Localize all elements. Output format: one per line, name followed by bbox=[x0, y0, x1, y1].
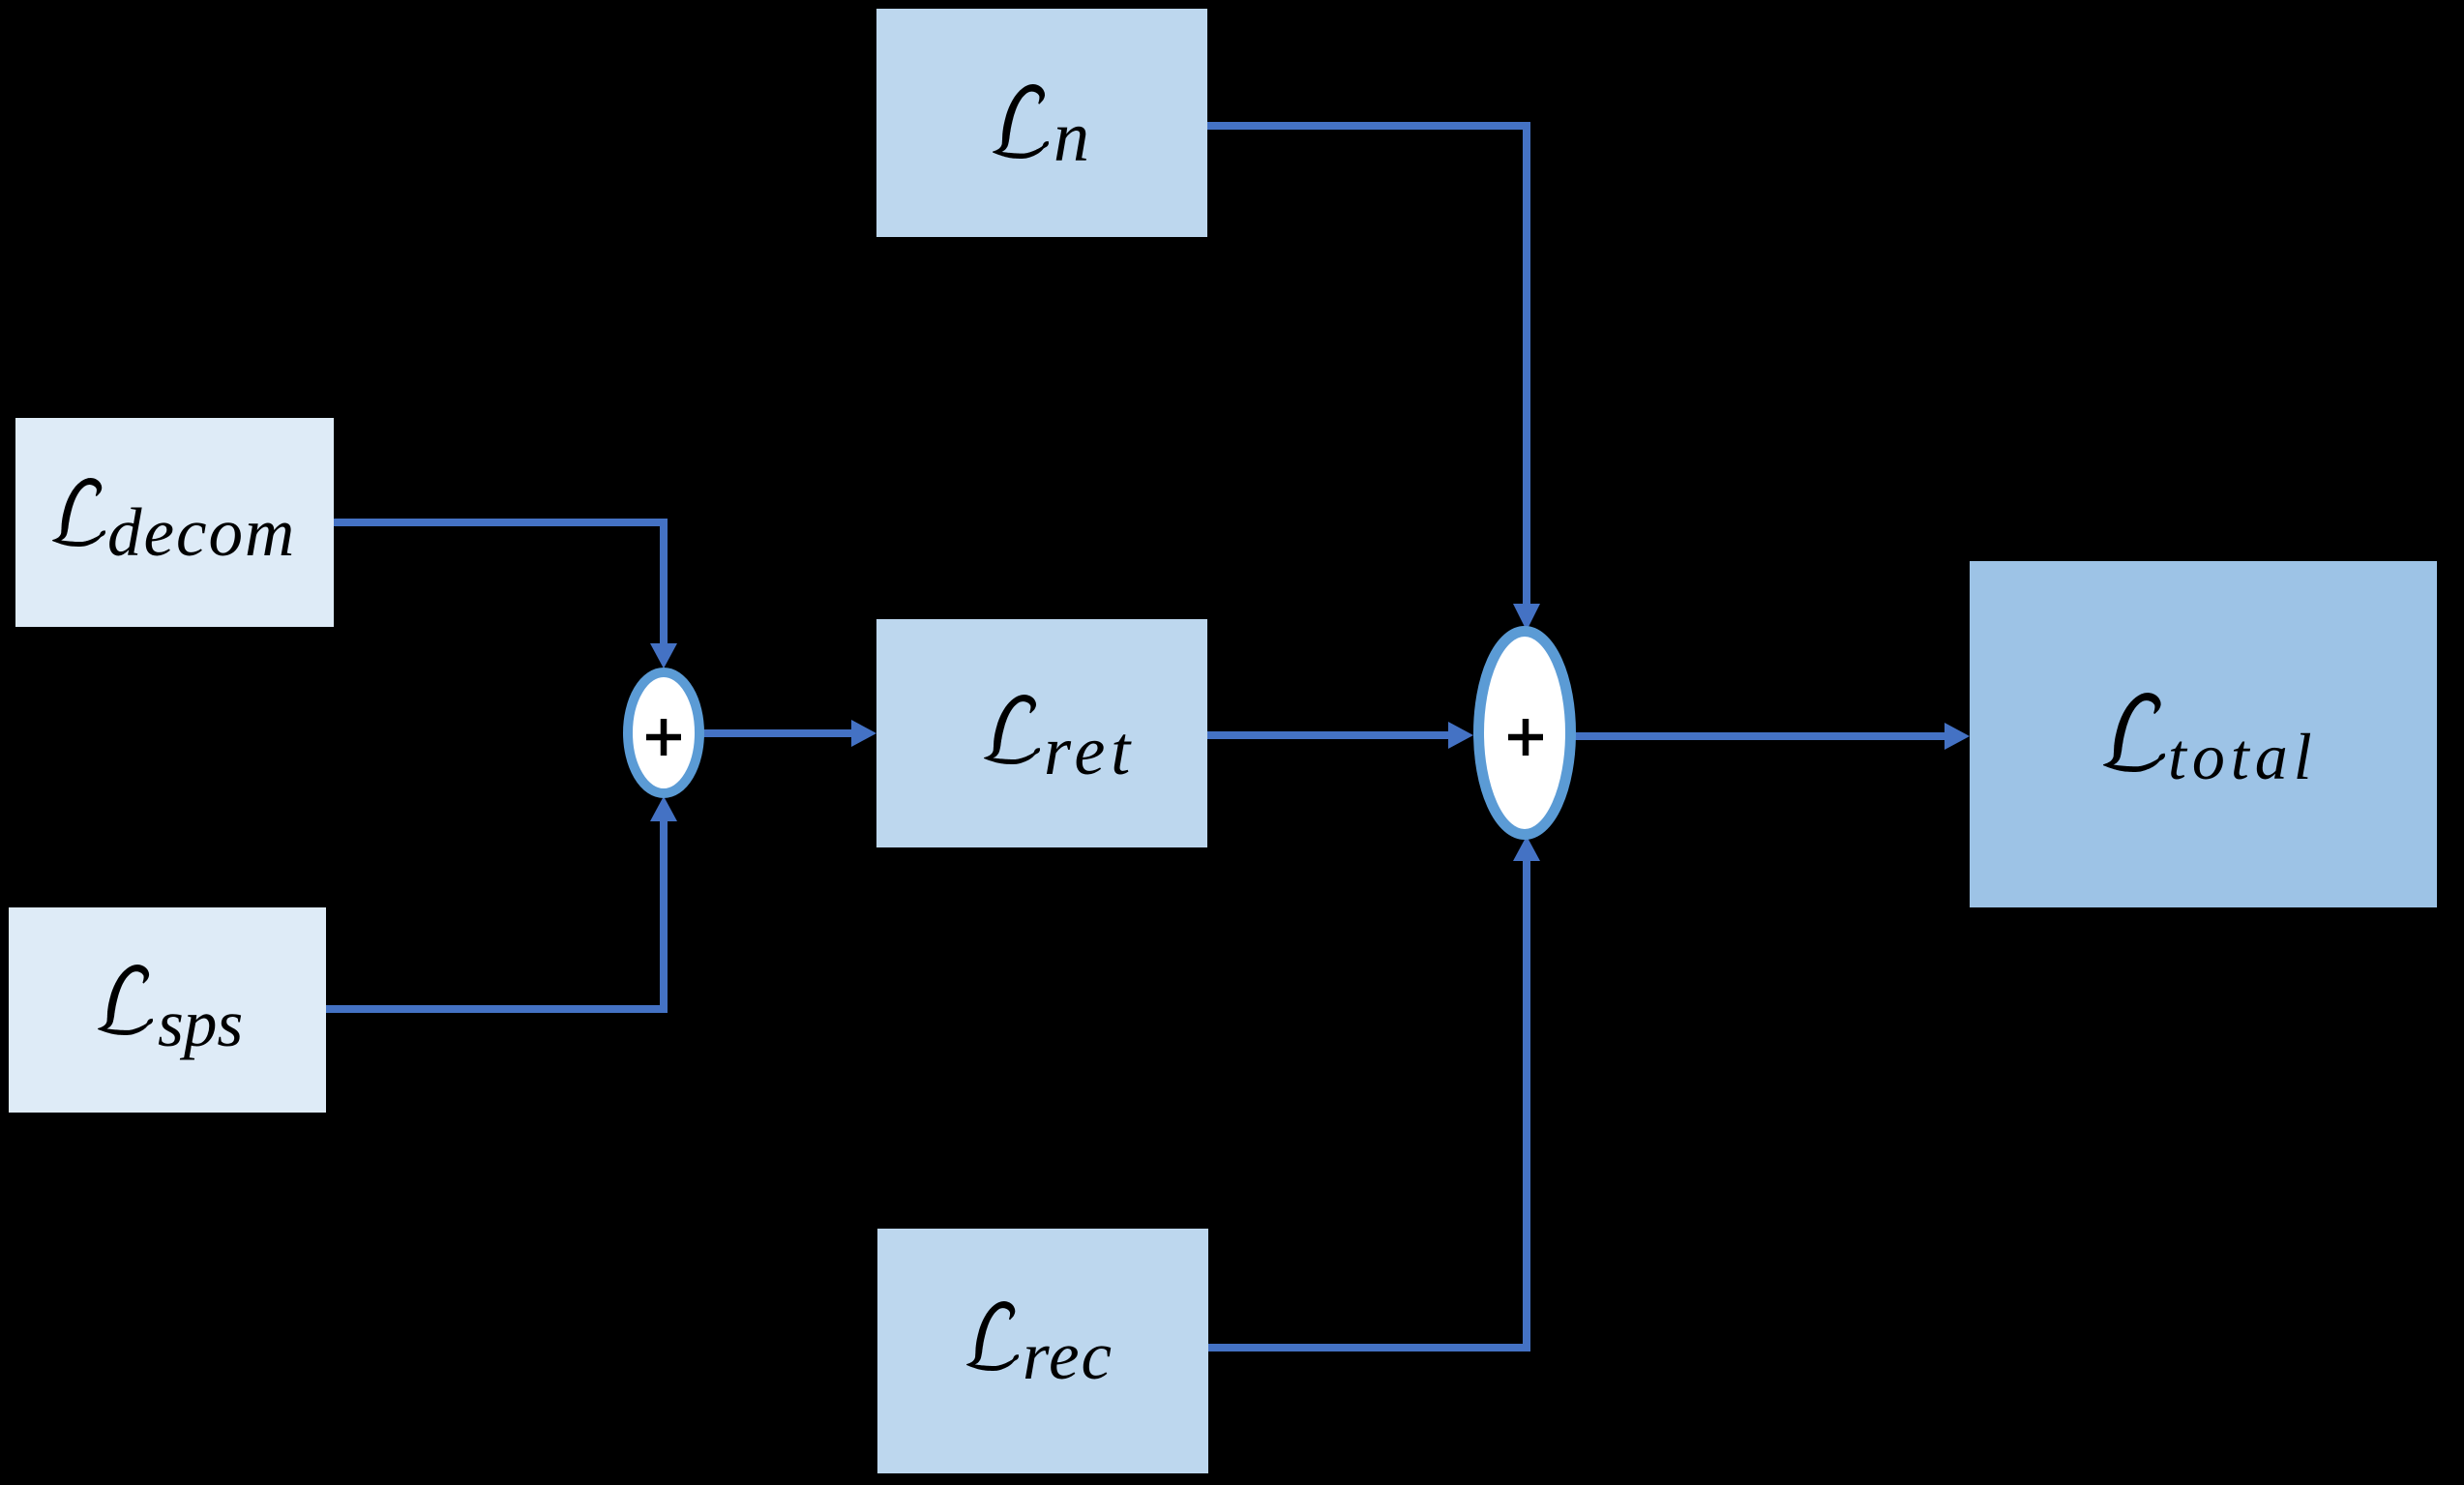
box Ln bbox=[876, 9, 1207, 237]
wire adder1 to Lret bbox=[703, 729, 851, 737]
wire adder2 to Ltotal bbox=[1575, 732, 1944, 740]
label Ltotal bbox=[2103, 693, 2165, 772]
svg-text:n: n bbox=[1054, 98, 1089, 177]
wire Lret to adder2 bbox=[1207, 731, 1448, 739]
label Ldecom bbox=[52, 478, 105, 547]
adder1 ellipse bbox=[628, 672, 699, 793]
svg-text:sps: sps bbox=[158, 987, 243, 1060]
wire Ldecom to adder1 bbox=[334, 522, 664, 643]
wire Ln to adder2 bbox=[1207, 126, 1527, 604]
adder2 plus bbox=[1508, 719, 1543, 756]
adder1 plus bbox=[646, 719, 681, 756]
box Lsps bbox=[9, 907, 326, 1113]
wire Lsps to adder1 bbox=[326, 821, 664, 1009]
box Ldecom bbox=[15, 418, 334, 627]
svg-text:rec: rec bbox=[1023, 1319, 1113, 1394]
svg-text:total: total bbox=[2168, 720, 2318, 793]
label Lsps bbox=[98, 965, 153, 1035]
adder2 ellipse bbox=[1479, 632, 1571, 835]
svg-text:decom: decom bbox=[107, 495, 296, 571]
box Lrec bbox=[877, 1229, 1208, 1473]
label Lret bbox=[984, 695, 1040, 764]
label Lrec bbox=[966, 1301, 1019, 1371]
box Ltotal bbox=[1970, 561, 2437, 907]
box Lret bbox=[876, 619, 1207, 847]
svg-text:ret: ret bbox=[1044, 712, 1136, 789]
wire Lrec to adder2 bbox=[1208, 861, 1527, 1348]
label Ln bbox=[993, 84, 1049, 159]
